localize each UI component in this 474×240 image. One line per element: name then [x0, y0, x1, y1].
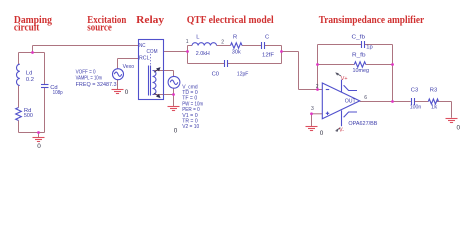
- svg-text:RCL: RCL: [139, 56, 150, 62]
- svg-text:0: 0: [457, 125, 461, 132]
- svg-text:0: 0: [37, 143, 41, 150]
- svg-text:C_fb: C_fb: [352, 35, 366, 41]
- svg-text:source: source: [87, 23, 112, 34]
- svg-text:Relay: Relay: [136, 15, 164, 26]
- svg-text:30k: 30k: [232, 49, 241, 55]
- svg-text:12pF: 12pF: [237, 72, 249, 78]
- svg-text:0: 0: [125, 89, 129, 96]
- svg-text:12fF: 12fF: [262, 52, 274, 58]
- svg-text:0.2: 0.2: [26, 77, 34, 83]
- svg-text:circuit: circuit: [14, 23, 40, 34]
- svg-text:6: 6: [364, 95, 367, 101]
- svg-text:V-: V-: [339, 127, 344, 133]
- svg-text:R: R: [233, 34, 237, 40]
- svg-text:Vexo: Vexo: [123, 64, 135, 70]
- svg-text:OPA627/BB: OPA627/BB: [348, 121, 377, 127]
- svg-text:VOFF = 0: VOFF = 0: [76, 69, 96, 75]
- svg-text:C: C: [265, 34, 269, 40]
- svg-text:108p: 108p: [53, 90, 63, 96]
- svg-text:3: 3: [311, 106, 314, 112]
- svg-text:V2 = 10: V2 = 10: [182, 124, 199, 130]
- svg-text:0: 0: [174, 127, 178, 134]
- svg-text:V+: V+: [341, 76, 348, 82]
- svg-text:COM: COM: [147, 49, 158, 55]
- svg-text:100n: 100n: [410, 104, 422, 110]
- svg-text:OUT: OUT: [345, 98, 356, 104]
- svg-text:FREQ = 32487.3: FREQ = 32487.3: [76, 82, 117, 88]
- svg-text:2.0kH: 2.0kH: [196, 51, 210, 57]
- svg-text:QTF electrical model: QTF electrical model: [187, 15, 274, 26]
- svg-text:C3: C3: [411, 87, 418, 93]
- svg-text:500: 500: [24, 113, 33, 119]
- svg-text:Ld: Ld: [26, 70, 32, 76]
- svg-text:NC: NC: [139, 43, 146, 49]
- svg-text:C0: C0: [212, 72, 219, 78]
- svg-text:R3: R3: [430, 87, 437, 93]
- svg-text:10meg: 10meg: [353, 68, 370, 74]
- svg-text:R_fb: R_fb: [352, 52, 366, 58]
- svg-text:Transimpedance amplifier: Transimpedance amplifier: [319, 15, 425, 26]
- svg-text:1: 1: [186, 39, 189, 45]
- svg-text:2: 2: [221, 40, 224, 46]
- svg-text:2: 2: [316, 84, 319, 90]
- svg-text:0: 0: [320, 130, 324, 137]
- svg-text:1p: 1p: [366, 44, 372, 50]
- svg-text:1k: 1k: [431, 104, 437, 110]
- svg-text:VAMPL = 10m: VAMPL = 10m: [76, 76, 103, 82]
